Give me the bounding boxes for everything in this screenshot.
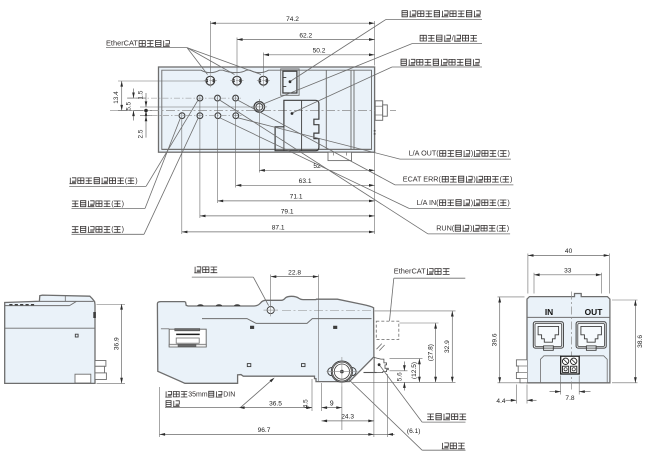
dimension 4.5	[304, 407, 313, 409]
LED indicator row2 #3	[215, 113, 221, 119]
side view vents upper	[251, 326, 254, 328]
dimension 36.5	[239, 407, 312, 409]
dimension 13.4	[121, 81, 123, 111]
front view 36.9 extension lines	[97, 304, 126, 306]
EtherCAT setting rotary switch S1	[206, 76, 215, 85]
note DIN rail	[165, 391, 172, 397]
svg-text:): )	[471, 198, 473, 207]
dimension 33	[534, 274, 602, 276]
connector cover leader dot	[291, 112, 294, 115]
svg-text:40: 40	[565, 248, 573, 255]
body ledge under chamfer	[364, 372, 377, 374]
svg-text:(6.1): (6.1)	[407, 428, 421, 435]
label error indicator red	[72, 227, 79, 233]
LED indicator row1 #2	[215, 95, 221, 101]
RJ45 jack IN	[533, 322, 563, 348]
svg-text:(: (	[500, 175, 503, 184]
front view cap detail ticks	[9, 304, 12, 306]
svg-text:IN: IN	[545, 307, 553, 317]
svg-text:1.5: 1.5	[138, 90, 145, 99]
top view right edge ticks	[374, 130, 376, 132]
mode cover leader dot	[289, 80, 292, 83]
top view inner wall line	[162, 70, 372, 149]
svg-text:32.9: 32.9	[444, 340, 451, 353]
label memory/reset key	[420, 35, 426, 41]
svg-text:63.1: 63.1	[299, 178, 312, 185]
svg-text:): )	[507, 224, 509, 233]
dimension 9	[322, 407, 342, 409]
extension lines for top dimensions	[209, 21, 211, 74]
svg-text:96.7: 96.7	[258, 427, 271, 434]
svg-text:DIN: DIN	[223, 391, 235, 398]
EtherCAT setting rotary switch S2	[233, 76, 242, 85]
front view body	[5, 295, 95, 383]
dimension 52	[259, 169, 374, 171]
label power indicator green	[72, 201, 79, 207]
bottom extension lines	[311, 379, 313, 411]
dimension 79.1	[200, 215, 375, 217]
dimension 38.6	[634, 300, 636, 383]
svg-text:7.8: 7.8	[565, 395, 574, 402]
label mode switch cover	[402, 11, 407, 17]
svg-text:): )	[510, 175, 512, 184]
dimension 1.5	[145, 93, 147, 107]
svg-text:5.5: 5.5	[126, 101, 133, 110]
svg-text:(: (	[497, 149, 500, 158]
dimension (6.1)	[374, 433, 388, 435]
extension lines for bottom dimensions	[181, 112, 183, 234]
top view internal double edge	[350, 70, 352, 149]
svg-text:): )	[122, 199, 124, 208]
svg-text:(: (	[125, 176, 128, 185]
dimension 36.9	[121, 304, 123, 383]
RJ45 jack OUT	[576, 322, 606, 348]
svg-text:33: 33	[564, 268, 572, 275]
bottom view side extension lines	[498, 296, 525, 298]
svg-text:): )	[135, 176, 137, 185]
front view cap lower edge	[5, 305, 70, 307]
svg-text:): )	[508, 149, 510, 158]
memory function / reset button	[254, 102, 265, 113]
svg-text:87.1: 87.1	[272, 225, 285, 232]
dimension 5.6	[403, 362, 405, 371]
dimension 32.9	[451, 311, 453, 382]
output signal connector cover	[275, 100, 319, 150]
LED row2 centerline	[140, 115, 243, 117]
scalloped adjustment knob	[331, 361, 352, 382]
side view inner contour	[202, 319, 372, 324]
dimension 87.1	[182, 231, 375, 233]
svg-text:EtherCAT: EtherCAT	[106, 39, 138, 48]
dimension 39.6	[499, 297, 501, 383]
svg-text:5.6: 5.6	[396, 372, 403, 381]
side view top edge bumps	[197, 304, 203, 306]
dimension 7.8 extension lines	[560, 376, 562, 395]
dimension 4.4 extension lines	[515, 385, 517, 404]
label output connector cover	[401, 59, 406, 65]
reference dot	[144, 109, 148, 113]
svg-text:): )	[507, 198, 509, 207]
power connector protrusion	[374, 358, 388, 373]
dimension 24.3	[322, 420, 374, 422]
right side extension lines	[375, 310, 456, 312]
dimension 2.5	[145, 116, 147, 138]
dimension 71.1	[218, 200, 375, 202]
svg-text:L/A OUT(: L/A OUT(	[409, 149, 440, 158]
svg-text:(12.5): (12.5)	[411, 362, 418, 379]
svg-text:(: (	[496, 224, 499, 233]
dimension 5.5	[133, 89, 135, 99]
dimension 96.7	[160, 433, 374, 435]
dimension 22.8 extension lines	[270, 275, 272, 307]
dimension 22.8	[271, 276, 319, 278]
label power connector	[427, 414, 434, 420]
svg-text:4.5: 4.5	[302, 399, 309, 408]
svg-text:RUN(: RUN(	[436, 224, 455, 233]
svg-text:24.3: 24.3	[341, 414, 354, 421]
top view bottom tab	[328, 152, 352, 160]
side view horizontal centerline	[282, 310, 374, 312]
side view vents lower	[247, 364, 251, 367]
svg-text:ECAT ERR(: ECAT ERR(	[403, 175, 442, 184]
svg-text:9: 9	[330, 400, 334, 407]
svg-text:71.1: 71.1	[290, 194, 303, 201]
svg-text:2.5: 2.5	[138, 129, 145, 138]
top view body outline	[159, 67, 375, 152]
label light window bottom	[442, 443, 449, 449]
operation mode switch cover	[281, 69, 299, 95]
EtherCAT setting rotary switch S3	[259, 76, 268, 85]
LED indicator row1 #3	[233, 95, 239, 101]
svg-text:22.8: 22.8	[288, 269, 301, 276]
svg-text:79.1: 79.1	[281, 209, 294, 216]
side view body outline	[157, 296, 374, 383]
dimension 63.1	[236, 184, 375, 186]
svg-text:(27.8): (27.8)	[427, 344, 434, 361]
row extension lines left	[118, 80, 206, 82]
front view terminal blocks	[95, 361, 106, 367]
front view small vent	[75, 334, 78, 337]
hatch marks below dashed box	[377, 344, 382, 350]
front view right edge mark	[94, 312, 96, 317]
svg-text:): )	[473, 175, 475, 184]
svg-text:(: (	[111, 199, 114, 208]
svg-text:(: (	[111, 225, 114, 234]
power terminal connector	[561, 356, 580, 374]
svg-text:EtherCAT: EtherCAT	[394, 267, 426, 276]
LED indicator row2 #1	[179, 113, 185, 119]
bottom view inner line	[527, 316, 610, 318]
DIN rail clip	[169, 329, 206, 347]
top view internal edge x=326	[325, 70, 327, 149]
dimension (12.5)	[418, 359, 420, 383]
side view light window circle	[267, 307, 274, 314]
svg-text:13.4: 13.4	[113, 91, 120, 104]
svg-text:): )	[122, 225, 124, 234]
dimension 4.4	[506, 399, 517, 401]
dimension (27.8)	[435, 323, 437, 382]
front view hump divider	[64, 296, 66, 302]
svg-text:39.6: 39.6	[492, 333, 499, 346]
svg-text:50.2: 50.2	[313, 48, 326, 55]
svg-text:62.2: 62.2	[299, 32, 312, 39]
bottom view top extension lines	[527, 254, 529, 294]
top view horizontal centerline	[118, 110, 396, 112]
LED row1 centerline	[128, 97, 243, 99]
bottom recess outline	[527, 355, 583, 357]
svg-text:74.2: 74.2	[286, 16, 299, 23]
svg-text:): )	[471, 149, 473, 158]
svg-text:36.5: 36.5	[269, 400, 282, 407]
dimension 7.8	[550, 391, 561, 393]
svg-text:L/A IN(: L/A IN(	[417, 198, 440, 207]
front view mid separation	[5, 327, 95, 329]
bottom view centerline	[571, 292, 573, 392]
dimension 50.2	[263, 54, 374, 56]
left protrusion steps	[516, 360, 527, 383]
svg-text:OUT: OUT	[585, 307, 604, 317]
svg-text:38.6: 38.6	[637, 335, 644, 348]
top view right protrusion	[375, 101, 383, 121]
bottom view body	[527, 294, 610, 383]
dimension 74.2	[210, 22, 374, 24]
EtherCAT connector dashed box	[376, 321, 399, 339]
dimension 40	[528, 254, 609, 256]
LED indicator row2 #4	[233, 113, 239, 119]
label memory indicator yellow	[70, 178, 77, 184]
svg-text:4.4: 4.4	[496, 398, 505, 405]
svg-text:36.9: 36.9	[114, 337, 121, 350]
power connector leader dot	[378, 363, 381, 366]
svg-text:(: (	[497, 198, 500, 207]
LED indicator row1 #1	[197, 95, 203, 101]
LED indicator row2 #2	[197, 113, 203, 119]
label light window top	[194, 267, 201, 273]
svg-text:35mm: 35mm	[188, 391, 208, 398]
front view bottom-right box	[75, 374, 91, 383]
svg-text:): )	[470, 224, 472, 233]
dimension 62.2	[237, 39, 375, 41]
